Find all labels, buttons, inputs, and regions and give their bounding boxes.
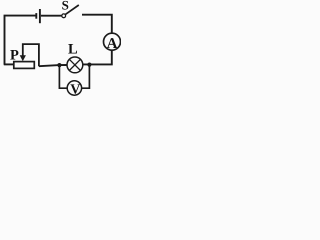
wire: switch to top-right corner + down to ammeter [82, 15, 112, 34]
rheostat P slider wire: up and over [23, 44, 39, 66]
rheostat P slider arrowhead [20, 55, 26, 61]
wire: left stub into rheostat [4, 63, 14, 65]
lamp L circle [67, 57, 83, 73]
background [0, 0, 121, 101]
svg-text:S: S [62, 0, 69, 12]
node: left junction dot [57, 63, 61, 67]
wire: main segment from rheostat branch to lamp [39, 65, 67, 66]
wire: voltmeter branch left [59, 65, 67, 88]
voltmeter U2 circle [67, 81, 81, 95]
lamp X cross [69, 59, 80, 70]
node: right junction dot [87, 63, 91, 67]
svg-text:A: A [107, 36, 118, 52]
wire: battery to switch pivot [41, 15, 62, 17]
battery B: short plate (negative) [35, 13, 37, 19]
rheostat P body box [14, 62, 35, 69]
wire: left column + top-left segment [5, 16, 36, 65]
wire: ammeter down + bottom-right corner to lamp [83, 50, 112, 64]
svg-text:V: V [70, 82, 80, 97]
switch S blade (open) [65, 5, 78, 14]
switch S pivot circle [62, 14, 66, 18]
ammeter U1 circle [104, 33, 121, 50]
svg-text:P: P [10, 47, 19, 63]
wire: voltmeter branch right [82, 65, 90, 89]
battery B: long plate (positive) [39, 9, 41, 23]
svg-text:L: L [68, 42, 78, 58]
